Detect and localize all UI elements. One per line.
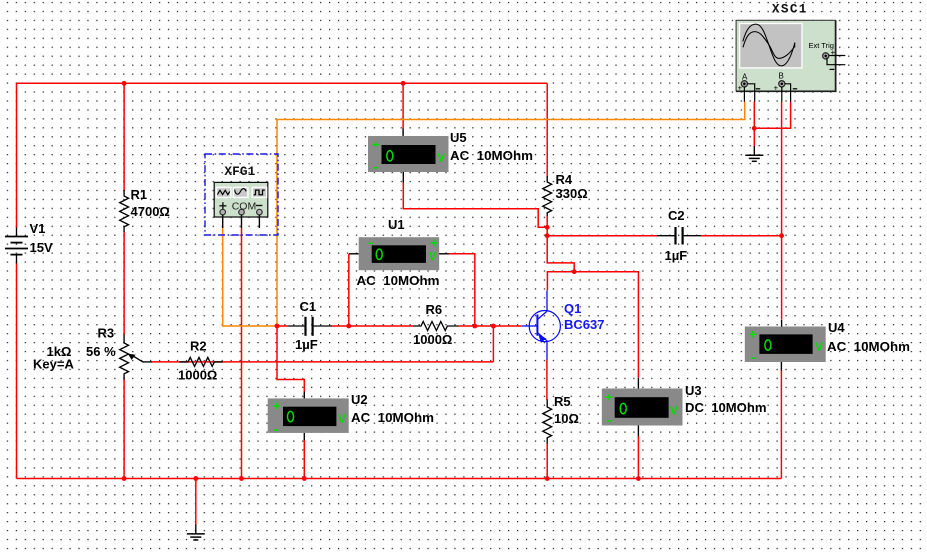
resistor R1 [120,190,129,232]
pot wiper arrow [128,354,152,362]
svg-text:1000Ω: 1000Ω [178,368,217,383]
resistor R2 [179,357,223,366]
wire R2 drop [492,326,494,362]
voltmeter U1 [349,217,449,288]
wire C1 right to node [332,325,349,327]
scope ExtTrig terminal [823,53,829,59]
svg-text:U2: U2 [351,392,368,407]
svg-text:C1: C1 [300,299,317,314]
svg-text:AC 10MOhm: AC 10MOhm [357,273,440,288]
node bus U3 [636,476,641,481]
svg-text:R4: R4 [556,172,573,187]
wire V1 bottom to bus [16,263,18,479]
svg-text:AC 10MOhm: AC 10MOhm [450,148,533,163]
resistor R3 potentiometer [120,335,129,380]
node scope gnd [752,126,757,131]
svg-text:10Ω: 10Ω [554,411,579,426]
wires orange [223,102,745,327]
wire scope gnd drop [753,128,755,146]
svg-text:BC637: BC637 [564,317,604,332]
XFG1 terminal stubs [223,215,260,228]
wire U1 right drop [449,254,475,326]
wire C2 right [701,235,782,237]
svg-text:AC 10MOhm: AC 10MOhm [351,410,434,425]
transistor Q1 [522,291,561,360]
svg-text:C2: C2 [668,208,685,223]
XFG1 button triangle [216,187,230,197]
wire R1 branch top [123,83,125,190]
svg-text:+: + [774,84,779,93]
wire scope B plus down [781,102,783,320]
svg-text:U1: U1 [388,217,405,232]
node bus R5 [545,476,550,481]
scope trace B [743,32,795,59]
wire bottom bus [17,478,782,480]
resistor R4 [543,176,552,216]
svg-text:XSC1: XSC1 [772,2,807,17]
svg-text:V1: V1 [30,221,46,236]
wires red [17,83,791,525]
svg-text:4700Ω: 4700Ω [131,204,170,219]
svg-text:V: V [670,404,678,418]
wire U5 top [402,83,404,128]
wire orange channelA horizontal [276,102,745,120]
svg-text:R6: R6 [426,302,443,317]
svg-text:+: + [831,48,836,57]
wire R4 top [546,83,548,176]
wire ground1 drop [195,479,197,526]
ground main [187,525,205,541]
wire U3 bottom to bus [637,436,639,479]
scope screen [740,24,802,68]
resistor R6 [413,322,458,331]
XFG1 terminal com [239,209,245,215]
node collector U3 [572,269,577,274]
wire R1 to R3 [123,232,125,335]
svg-text:V: V [815,340,823,354]
svg-text:R3: R3 [98,326,115,341]
svg-text:56 %: 56 % [86,344,116,359]
resistor R5 [543,400,552,444]
capacitor C1 [288,317,332,336]
scope terminal B [779,81,785,87]
node R4 U5 [545,225,550,230]
node bus gnd [193,476,198,481]
svg-text:1µF: 1µF [665,248,688,263]
wire emitter to R5 [546,359,548,400]
node U1 right [472,324,477,329]
node R4 C2 [545,233,550,238]
wire scope A minus down [753,102,755,129]
wire XFG1 plus orange [223,228,277,326]
svg-text:AC 10MOhm: AC 10MOhm [827,339,910,354]
node bus XFG [239,476,244,481]
node top bus U5 [401,81,406,86]
node C1 right [346,324,351,329]
svg-text:R5: R5 [554,394,571,409]
wire left vertical V1 top [16,83,18,228]
svg-text:V: V [338,412,346,426]
voltmeter U4 [745,320,910,371]
scope terminal A [741,81,747,87]
wire R6 right to base node [458,325,521,327]
svg-text:DC 10MOhm: DC 10MOhm [685,400,767,415]
svg-text:V: V [437,151,445,165]
node bus R3 [122,476,127,481]
svg-text:U4: U4 [828,320,845,335]
node C1 left [275,324,280,329]
svg-text:15V: 15V [30,240,53,255]
wire node to R6 [349,325,413,327]
node top bus R1 [122,81,127,86]
wire U1 left drop [348,254,350,326]
XFG1 body [214,182,268,217]
wire orange riser [276,120,278,327]
ground scope [745,146,763,161]
svg-text:R1: R1 [131,187,148,202]
wire scope B minus down [754,102,790,129]
black component strokes [5,146,763,540]
svg-text:1000Ω: 1000Ω [413,332,452,347]
node C2 B [779,233,784,238]
XFG1 plus text [219,202,226,209]
wire R3 bottom to bus [123,379,125,479]
node R2 base [491,324,496,329]
wire node to collector [547,272,574,291]
oscilloscope XSC1 [736,2,845,102]
svg-text:XFG1: XFG1 [224,164,255,179]
svg-text:B: B [779,72,784,81]
svg-text:U3: U3 [685,383,702,398]
capacitor C2 [657,227,701,245]
svg-text:V: V [429,250,437,264]
battery V1 [5,228,28,264]
XFG1 button sine [234,187,248,197]
svg-text:330Ω: 330Ω [556,186,588,201]
wire U4 bottom to bus [780,371,782,479]
svg-text:U5: U5 [450,130,467,145]
wire C1 left stub [277,325,288,327]
wire R2 horizontal [179,361,493,363]
XFG1 button square [252,187,266,197]
node bus U2 [302,476,307,481]
wire U5 bottom route [403,182,547,227]
wire R5 bottom to bus [546,443,548,479]
wire U2 bottom to bus [303,440,305,479]
svg-text:1µF: 1µF [295,337,318,352]
voltmeter U5 [368,129,533,183]
svg-text:+: + [738,84,743,93]
XFG1 terminal plus [220,209,226,215]
wire pot wiper red part [152,361,180,363]
wire R4 bottom to node [547,215,574,271]
voltmeter U2 [268,392,434,441]
wire C2 left [547,235,657,237]
svg-text:Q1: Q1 [564,301,581,316]
wire XFG1 COM to bus [241,228,243,479]
wire node to U3 [574,272,638,378]
XFG1 minus text [256,205,262,207]
svg-text:R2: R2 [190,339,207,354]
wire top bus [17,82,548,84]
function generator XFG1 dashed box [205,154,278,235]
svg-text:Key=A: Key=A [33,357,74,372]
voltmeter U3 [602,378,767,436]
XFG1 terminal minus [257,209,263,215]
scope trace A [743,24,795,66]
wire C1 to U2 [277,326,304,392]
